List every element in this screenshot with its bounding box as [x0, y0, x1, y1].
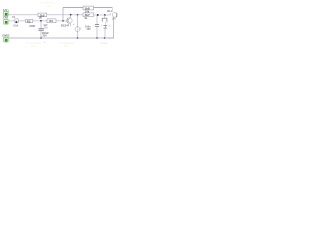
- wire right-top corner lead: [111, 8, 113, 13]
- wire collector up: [70, 15, 72, 18]
- wire right vertical: [108, 17, 114, 38]
- wire emitter down: [69, 23, 71, 26]
- lamp X1: [112, 13, 117, 18]
- watermark pale yellow bottom middle: [59, 41, 74, 48]
- connector J3 green block: [4, 37, 8, 43]
- wire diode lead: [104, 22, 106, 25]
- svg-text:circuits: circuits: [100, 42, 108, 45]
- svg-text:220R: 220R: [29, 25, 35, 28]
- svg-text:50V: 50V: [44, 27, 49, 29]
- svg-text:CN2: CN2: [3, 17, 9, 20]
- node junction (70.6,14.8): [70, 14, 72, 16]
- label of C3: [85, 26, 91, 32]
- svg-text:1k: 1k: [39, 16, 43, 20]
- wire middle rail segment 4: [56, 20, 67, 22]
- capacitor C2 circle: [75, 27, 80, 32]
- wire middle rail segment 2: [18, 20, 26, 22]
- watermark pale yellow top: [40, 1, 55, 8]
- node junction (77.5,38): [77, 37, 79, 39]
- wire vertical x63 from top rail to middle rail: [62, 8, 64, 21]
- node junction (41,20.9): [40, 20, 42, 22]
- label of C1 volts: [42, 32, 50, 37]
- wire top rail: [63, 7, 112, 9]
- wire bottom rail: [8, 37, 113, 39]
- diode D1: [104, 26, 108, 29]
- wire vertical x97 lower: [96, 27, 98, 38]
- node junction (97,38): [96, 37, 98, 39]
- wire upper line middle: [47, 14, 83, 16]
- resistor R4 box on top rail: [83, 6, 94, 10]
- wire upper line left (block J1 to R1): [8, 14, 38, 16]
- svg-text:12V: 12V: [3, 9, 8, 12]
- resistor R2 box: [26, 19, 33, 23]
- svg-text:BC547: BC547: [61, 23, 70, 27]
- svg-text:0.5A: 0.5A: [13, 24, 18, 27]
- watermark pale yellow bottom left: [26, 41, 41, 48]
- svg-text:12V: 12V: [112, 17, 117, 20]
- svg-text:R3: R3: [49, 19, 53, 23]
- node junction (104.6,38): [104, 37, 106, 39]
- wire vertical x105 lower: [104, 28, 106, 38]
- wire vertical x41 lower: [40, 31, 42, 38]
- wire vertical x77.5 upper: [77, 15, 79, 27]
- wire vertical x77.5 lower: [77, 32, 79, 39]
- node junction (104.8,15): [104, 14, 106, 16]
- svg-text:.com: .com: [30, 45, 37, 48]
- resistor R1 box: [38, 13, 47, 17]
- relay RL1 coil: [102, 18, 107, 22]
- svg-text:GND2: GND2: [2, 34, 10, 37]
- node junction (41,38): [40, 37, 42, 39]
- connector J2 green block: [4, 19, 8, 24]
- capacitor C1: [39, 29, 44, 31]
- wire middle rail left: [8, 20, 15, 22]
- transistor Q1: [66, 18, 72, 24]
- svg-text:25V: 25V: [42, 34, 47, 37]
- wire upper line right: [94, 14, 111, 16]
- svg-text:16V: 16V: [86, 28, 91, 31]
- svg-text:.com: .com: [63, 45, 70, 48]
- connector J1 green block: [4, 11, 8, 16]
- node junction (97,15): [97, 14, 99, 16]
- wire middle rail segment 3: [33, 20, 47, 22]
- wire vertical x41 upper: [40, 21, 42, 29]
- node junction (63,20.9): [62, 20, 64, 22]
- svg-text:.com: .com: [46, 5, 53, 8]
- capacitor C3: [95, 25, 99, 27]
- resistor R3 box: [47, 19, 56, 23]
- svg-text:R2: R2: [27, 19, 31, 23]
- label J1 pin tick: [7, 10, 9, 12]
- wire relay lead down: [104, 15, 106, 18]
- fuse F1: [15, 19, 18, 23]
- resistor R5 box: [83, 13, 94, 17]
- node junction (77.5,14.8): [77, 14, 79, 16]
- wire vertical x97 upper: [96, 15, 98, 24]
- svg-text:1k: 1k: [84, 16, 87, 20]
